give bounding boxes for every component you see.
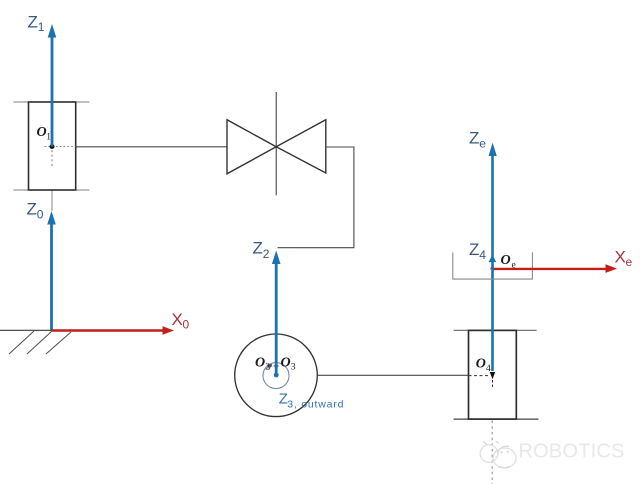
svg-text:O: O [37,125,47,140]
axis Z0 arrow [47,211,56,330]
svg-text:Z: Z [28,13,38,32]
svg-text:X: X [172,310,183,329]
label Z0 [27,200,44,222]
label Xe [615,248,633,270]
node O4 dashed approach [469,375,490,377]
node O1 dashed cross [45,146,76,148]
label Z2 [253,239,270,262]
label O1 [37,125,52,142]
label O4 [476,357,491,374]
svg-text:3: 3 [291,363,296,373]
label Z3 outward [279,391,344,411]
svg-text:e: e [626,255,633,269]
axis Ze arrowhead [489,143,497,156]
ground hatch 1 [9,331,34,354]
label Ze [469,128,486,150]
svg-text:X: X [615,248,626,267]
ground line [0,329,53,331]
node Oe marker [490,264,495,269]
blue axis endpoint cap [274,373,279,378]
link L4 block [454,330,539,419]
svg-text:Z: Z [469,128,479,147]
axis X0 arrow [52,326,174,335]
svg-text:1: 1 [46,132,51,142]
svg-text:O: O [255,355,265,370]
watermark logo [480,441,516,468]
svg-text:0: 0 [183,318,190,332]
ground hatch 2 [27,331,52,354]
joint axis vertical line [275,92,277,195]
rotation arrowhead [267,364,273,369]
ground hatch 3 [46,332,71,354]
revolute joint symbol right triangle [276,120,326,173]
axis Z2 arrow [272,251,281,376]
wire link1 to revolute joint symbol [76,146,228,148]
dashed extension below link4 [491,421,493,484]
svg-text:O: O [501,253,511,268]
svg-text:2: 2 [263,247,270,261]
wire joint to Z2 [278,147,354,248]
svg-text:4: 4 [479,248,486,262]
revolute joint symbol (bowtie) left triangle [227,120,276,174]
svg-text:O: O [281,355,291,370]
svg-text:Z: Z [469,240,479,259]
label Oe [501,253,516,270]
label O3 [281,355,296,372]
main blue axis line (Z4 / Ze) [491,154,494,371]
svg-text:e: e [479,137,486,151]
svg-text:O: O [476,357,486,372]
svg-text:0: 0 [37,208,44,222]
label O2 [255,355,270,372]
link L1 prismatic block [14,102,90,211]
svg-text:1: 1 [38,20,45,34]
dotted O2-O3 separator [271,365,281,367]
end effector bracket [453,252,533,279]
svg-text:3, outward: 3, outward [287,399,344,411]
svg-text:Z: Z [253,239,263,258]
label Z1 [28,13,45,35]
axis Xe arrow [494,264,617,273]
svg-text:ROBOTICS: ROBOTICS [519,441,625,463]
label X0 [172,310,190,332]
svg-text:2: 2 [265,363,270,373]
label Z4 [469,240,486,262]
axis Z4 arrowhead [489,255,497,262]
node O1 [50,144,55,149]
joint circle O2/O3 [235,334,318,417]
axis Z1 arrow [48,24,57,147]
svg-text:Z: Z [27,200,37,219]
wire circle to link4 [317,374,468,376]
rotation indicator circle [263,363,289,389]
node O4 down arrow marker [490,372,495,379]
